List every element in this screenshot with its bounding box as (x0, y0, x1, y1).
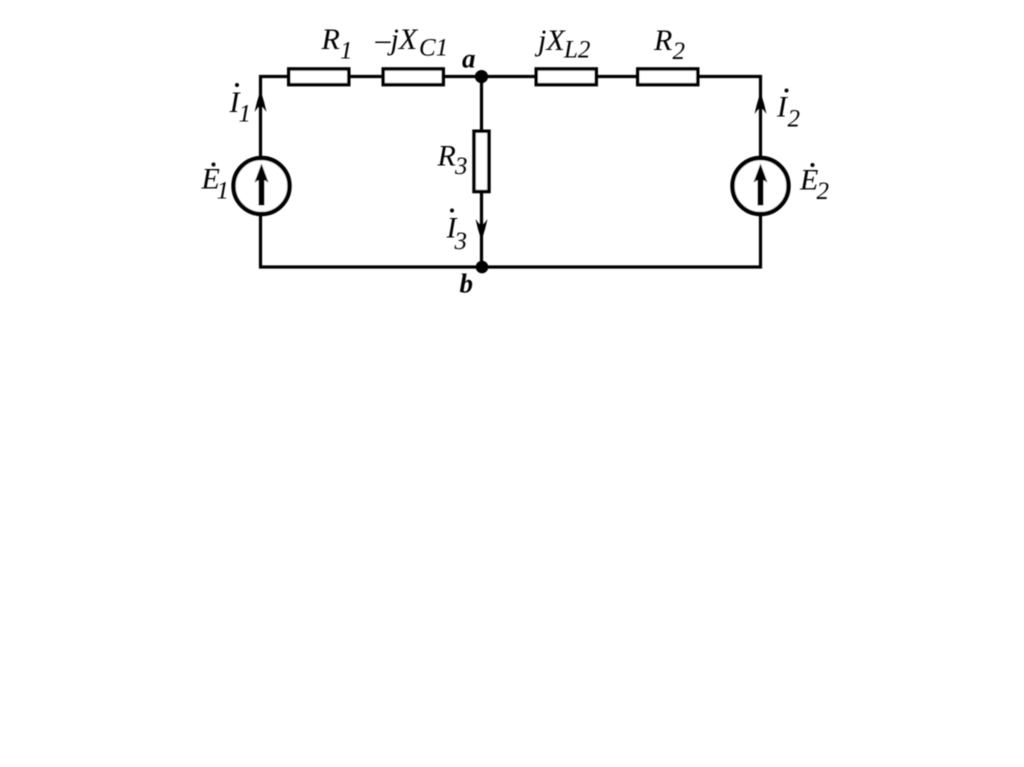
svg-text:R: R (653, 24, 672, 57)
current arrow I2 (755, 92, 767, 114)
wire outer loop (top, right, bottom, left) (261, 77, 761, 268)
svg-text:R: R (321, 23, 340, 56)
svg-text:jX: jX (534, 24, 566, 57)
source E1 (234, 158, 290, 214)
svg-text:1: 1 (340, 38, 353, 65)
wire middle branch a-b (480, 77, 483, 268)
inductor L2 box (536, 69, 596, 85)
current arrow I3 (476, 219, 488, 241)
svg-text:1: 1 (239, 101, 252, 128)
current arrow I1 (255, 90, 267, 112)
node b (476, 261, 489, 274)
source E2 (733, 158, 789, 214)
svg-text:E: E (799, 164, 818, 197)
svg-text:2: 2 (673, 38, 686, 65)
capacitor C1 box (383, 69, 443, 85)
svg-text:C1: C1 (419, 35, 448, 62)
node a (475, 70, 488, 83)
svg-text:3: 3 (454, 153, 468, 180)
svg-text:R: R (437, 140, 456, 173)
svg-text:2: 2 (788, 106, 801, 133)
svg-text:–jX: –jX (375, 23, 419, 56)
resistor R1 (289, 69, 349, 85)
svg-text:L2: L2 (563, 37, 590, 64)
svg-text:b: b (460, 269, 474, 299)
resistor R3 (474, 131, 489, 191)
svg-text:3: 3 (454, 228, 468, 255)
svg-text:1: 1 (217, 178, 230, 205)
resistor R2 (638, 69, 698, 85)
svg-text:2: 2 (817, 178, 830, 205)
svg-text:a: a (462, 44, 476, 74)
